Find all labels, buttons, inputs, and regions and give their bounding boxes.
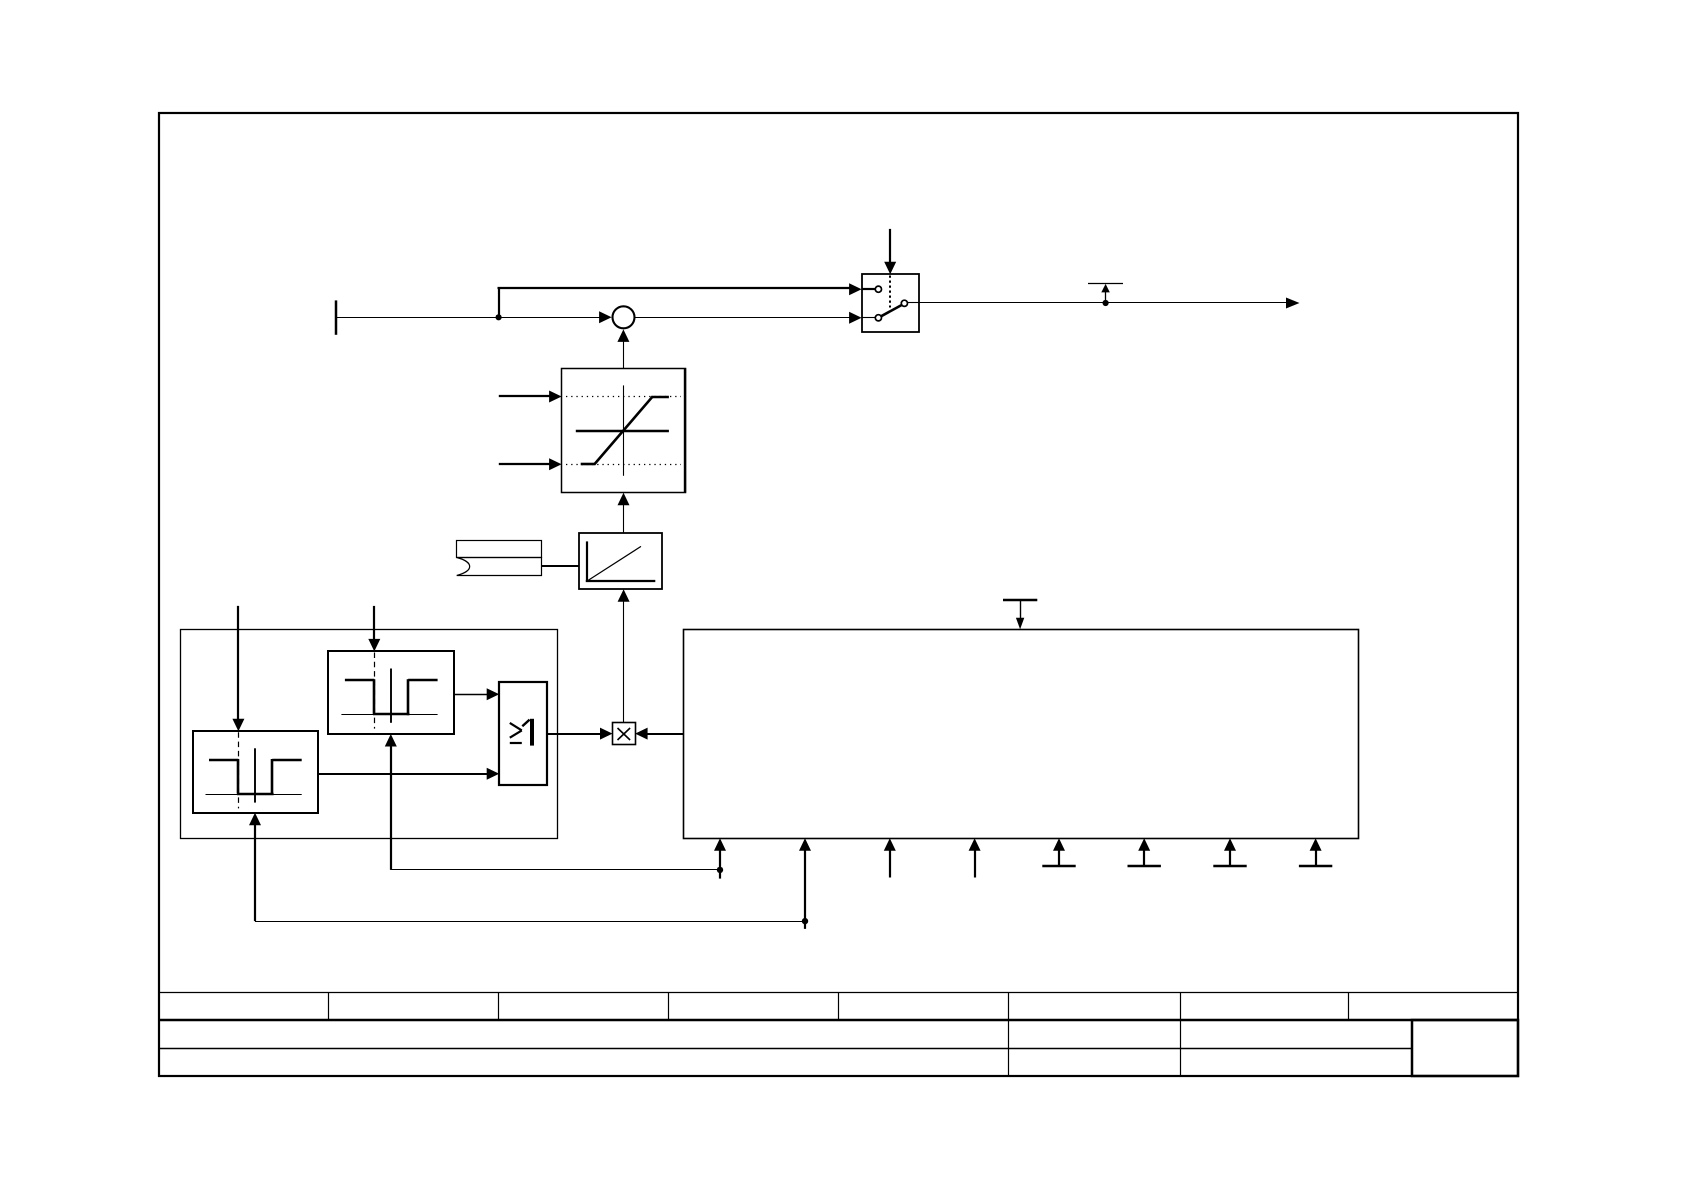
arrow into big block pin 2 [799, 838, 811, 929]
switch upper contact stub [862, 288, 876, 290]
switch output contact circle [901, 300, 907, 306]
output tap stem [1105, 292, 1107, 304]
hysteresis block 2 box [193, 731, 318, 813]
title block column divider B [1180, 1020, 1182, 1077]
arrow into switch upper input [849, 283, 862, 295]
wire feedback upper [391, 869, 720, 871]
ramp horizontal axis [586, 580, 656, 582]
title block sheet-number box [1412, 1020, 1518, 1076]
wire input to hysteresis 1 [373, 606, 375, 641]
limiter characteristic diagonal [594, 396, 653, 464]
limiter lower dotted level [566, 464, 681, 466]
output tap bar [1088, 283, 1123, 285]
output tap arrow [1101, 284, 1110, 293]
title block header divider 5 [1008, 992, 1010, 1020]
switch output stub [907, 302, 918, 304]
arrow upper limit input [549, 391, 562, 403]
arrow into hysteresis 2 top [232, 719, 244, 732]
limiter horizontal axis [576, 430, 669, 432]
wire bypass branch up [498, 288, 500, 318]
monitoring group box [181, 630, 558, 839]
arrow into ramp bottom [618, 589, 630, 602]
title block middle rule [159, 1048, 1412, 1050]
big block top stem [1020, 600, 1022, 618]
switch lower contact stub [862, 317, 876, 319]
hysteresis 1 vertical axis [390, 669, 392, 723]
arrow into OR input 1 [487, 688, 500, 700]
title block top rule [159, 992, 1519, 994]
arrow into hysteresis 1 top [368, 639, 380, 652]
title block header divider 2 [498, 992, 500, 1020]
arrow into switch top [884, 262, 896, 275]
OR gate label &ge;1 [510, 719, 532, 746]
title block header divider 3 [668, 992, 670, 1020]
arrow into big block pin 6 [1128, 838, 1161, 866]
wire upper limit input [499, 395, 550, 397]
wire ramp to limiter [623, 504, 625, 533]
wire multiplier to ramp [623, 601, 625, 723]
arrow into big block pin 4 [969, 838, 981, 877]
ramp-up block box [579, 533, 662, 589]
switch lower contact circle [875, 315, 881, 321]
wire switch to output [919, 302, 1287, 304]
input terminal bar [335, 300, 338, 334]
arrow into hysteresis 2 bottom [249, 813, 261, 826]
ramp diagonal [588, 546, 641, 580]
wire scroll to ramp [541, 565, 579, 567]
drawing border frame [159, 113, 1518, 1076]
big block top bar [1003, 599, 1037, 602]
title block header divider 7 [1348, 992, 1350, 1020]
arrow into limiter bottom [618, 493, 630, 506]
wire feedback lower [255, 921, 805, 923]
limiter characteristic lower flat [581, 463, 596, 466]
title block header divider 6 [1180, 992, 1182, 1020]
arrow into OR input 2 [487, 768, 500, 780]
hysteresis 1 curve [345, 679, 438, 715]
arrow into hysteresis 1 bottom [385, 734, 397, 747]
limiter characteristic upper flat [652, 396, 669, 399]
OR gate box [499, 682, 547, 785]
hysteresis 2 curve [209, 759, 302, 795]
fixed-setpoint scroll top [457, 541, 542, 558]
switch select dotted line [889, 276, 891, 308]
wire input to hysteresis 2 [237, 606, 239, 720]
ramp vertical axis [586, 541, 588, 581]
wire input to summer [336, 317, 606, 319]
hysteresis 2 dash-dot line [238, 732, 240, 808]
arrow lower limit input [549, 458, 562, 470]
node output junction dot [1103, 300, 1109, 306]
multiplier box [613, 723, 636, 745]
node pin2 junction dot [802, 918, 808, 924]
title block header divider 4 [838, 992, 840, 1020]
selector switch box [862, 274, 919, 332]
arrow into multiplier left [600, 728, 613, 740]
wire OR to multiplier [547, 733, 601, 735]
multiplier X glyph [618, 728, 631, 740]
wire feedback upper riser [390, 746, 392, 870]
switch select wire from above [889, 229, 891, 264]
arrow into switch lower input [849, 312, 862, 324]
arrow into big block pin 5 [1042, 838, 1075, 866]
node pin1 junction dot [717, 867, 723, 873]
arrow into multiplier right [635, 728, 648, 740]
arrow into summer [599, 311, 612, 323]
limiter block box [562, 368, 686, 492]
summing point circle [613, 306, 635, 328]
arrow into big block pin 8 [1299, 838, 1332, 866]
arrow into big block pin 3 [884, 838, 896, 877]
wire lower limit input [499, 463, 550, 465]
output arrowhead [1286, 298, 1300, 309]
arrow into big block top [1016, 618, 1024, 630]
wire hysteresis 2 to OR [318, 773, 488, 775]
wire feedback lower riser [254, 824, 256, 921]
fixed-setpoint scroll bottom [457, 558, 542, 576]
arrow limiter output [617, 329, 629, 342]
title block thick rule [159, 1019, 1519, 1022]
wire summer to switch [635, 317, 850, 319]
node junction dot [496, 314, 502, 320]
switch lever [881, 305, 902, 316]
switch upper contact circle [875, 286, 881, 292]
limiter upper dotted level [566, 396, 681, 398]
title block header divider 1 [328, 992, 330, 1020]
wire hysteresis 1 to OR [454, 694, 488, 696]
wire limiter to summer [623, 341, 625, 368]
limiter vertical axis [623, 385, 625, 475]
hysteresis 1 dash-dot line [374, 653, 376, 729]
hysteresis 1 horizontal axis [341, 714, 437, 716]
title block column divider A [1008, 1020, 1010, 1077]
hysteresis 2 vertical axis [254, 748, 256, 802]
arrow into big block pin 1 [714, 838, 726, 878]
wire bypass branch across [498, 287, 851, 289]
parameter big block box [684, 630, 1359, 839]
arrow into big block pin 7 [1213, 838, 1246, 866]
hysteresis block 1 box [328, 651, 454, 734]
hysteresis 2 horizontal axis [206, 794, 302, 796]
wire big block to multiplier [647, 733, 684, 735]
